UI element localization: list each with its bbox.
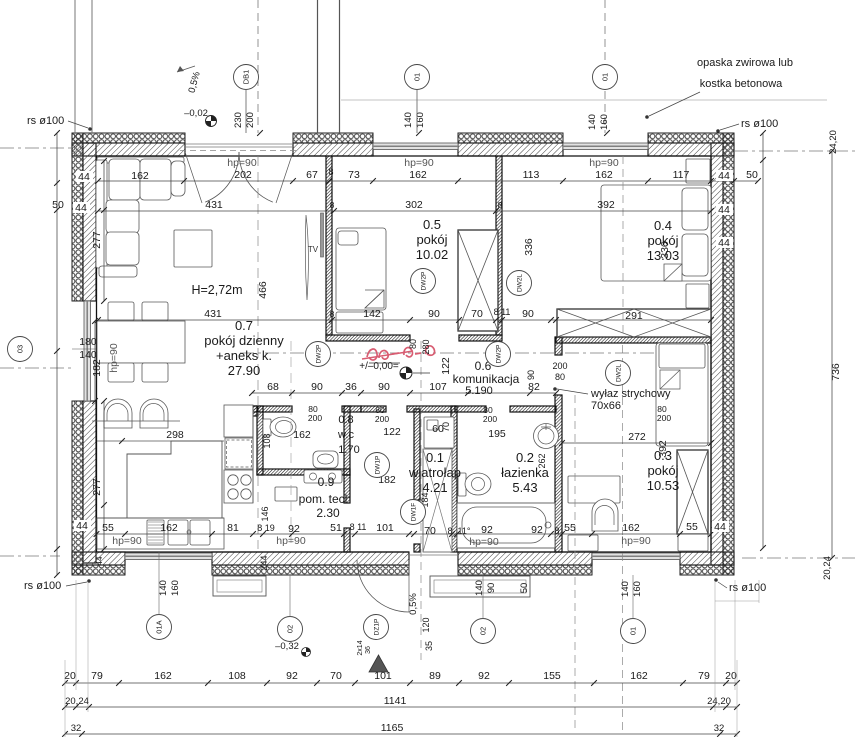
svg-text:244: 244 — [259, 555, 269, 570]
svg-text:44: 44 — [76, 520, 88, 532]
svg-text:70: 70 — [330, 670, 342, 682]
svg-text:36: 36 — [365, 646, 372, 654]
svg-text:291: 291 — [625, 310, 643, 322]
svg-text:195: 195 — [488, 428, 506, 440]
svg-text:50: 50 — [519, 583, 530, 594]
svg-text:122: 122 — [440, 357, 452, 375]
svg-text:182: 182 — [91, 359, 103, 377]
svg-text:44: 44 — [718, 204, 730, 216]
svg-text:298: 298 — [166, 429, 184, 441]
svg-text:160: 160 — [632, 581, 643, 597]
svg-text:komunikacja: komunikacja — [453, 372, 520, 386]
svg-text:180: 180 — [79, 336, 97, 348]
svg-text:01: 01 — [601, 73, 610, 81]
svg-text:10.02: 10.02 — [416, 247, 449, 262]
svg-text:H=2,72m: H=2,72m — [191, 283, 242, 297]
svg-text:90: 90 — [526, 370, 536, 380]
svg-text:8: 8 — [498, 200, 503, 210]
svg-text:rs ø100: rs ø100 — [741, 118, 778, 130]
svg-text:1165: 1165 — [381, 722, 404, 734]
svg-text:162: 162 — [131, 170, 149, 182]
svg-text:44: 44 — [75, 202, 87, 214]
svg-text:101: 101 — [374, 670, 392, 682]
svg-text:44: 44 — [714, 521, 726, 533]
svg-text:44: 44 — [95, 556, 104, 565]
svg-text:0.9: 0.9 — [318, 475, 335, 489]
svg-text:02: 02 — [479, 627, 488, 635]
svg-text:101: 101 — [376, 522, 394, 534]
svg-text:280: 280 — [421, 339, 431, 354]
svg-text:68: 68 — [267, 381, 279, 393]
svg-text:92: 92 — [286, 670, 298, 682]
svg-text:79: 79 — [91, 670, 103, 682]
svg-text:8 11: 8 11 — [350, 522, 367, 532]
svg-text:8 11: 8 11 — [494, 307, 511, 317]
svg-text:DZ1P: DZ1P — [374, 619, 381, 636]
svg-text:pokój: pokój — [647, 233, 678, 248]
svg-text:431: 431 — [205, 199, 223, 211]
svg-text:55: 55 — [686, 521, 698, 533]
svg-text:01: 01 — [413, 73, 422, 81]
svg-text:hp=90: hp=90 — [621, 535, 651, 547]
svg-text:160: 160 — [599, 114, 610, 130]
svg-text:160: 160 — [170, 580, 181, 596]
svg-text:DW2L: DW2L — [517, 274, 524, 292]
svg-text:DW2P: DW2P — [496, 345, 503, 364]
svg-text:202: 202 — [234, 169, 252, 181]
svg-text:70: 70 — [424, 525, 436, 537]
svg-text:hp=90: hp=90 — [108, 343, 120, 373]
svg-text:rs ø100: rs ø100 — [729, 582, 766, 594]
svg-text:50: 50 — [52, 199, 64, 211]
svg-text:hp=90: hp=90 — [589, 157, 619, 169]
svg-text:36: 36 — [345, 381, 357, 393]
svg-text:277: 277 — [91, 231, 103, 249]
svg-text:pokój dzienny: pokój dzienny — [204, 333, 284, 348]
svg-text:90: 90 — [311, 381, 323, 393]
svg-text:łazienka: łazienka — [501, 465, 549, 480]
svg-text:162: 162 — [409, 169, 427, 181]
svg-text:13.03: 13.03 — [647, 248, 680, 263]
svg-text:80: 80 — [408, 339, 418, 349]
svg-text:rs ø100: rs ø100 — [27, 115, 64, 127]
svg-text:hp=90: hp=90 — [112, 535, 142, 547]
svg-text:opaska zwirowa lub: opaska zwirowa lub — [697, 57, 793, 69]
svg-text:8: 8 — [330, 309, 335, 319]
svg-text:122: 122 — [383, 426, 401, 438]
svg-text:200: 200 — [308, 413, 322, 423]
svg-text:113: 113 — [523, 169, 540, 181]
svg-text:44: 44 — [78, 171, 90, 183]
svg-text:277: 277 — [91, 478, 103, 496]
svg-text:1141: 1141 — [384, 695, 407, 707]
svg-text:11°: 11° — [458, 526, 471, 536]
svg-text:0.2: 0.2 — [516, 450, 534, 465]
svg-text:431: 431 — [204, 308, 222, 320]
svg-text:03: 03 — [16, 345, 25, 353]
svg-text:90: 90 — [522, 308, 534, 320]
svg-text:20,24: 20,24 — [65, 696, 89, 707]
svg-text:pom. tech: pom. tech — [299, 492, 352, 506]
svg-text:200: 200 — [552, 361, 567, 371]
svg-text:92: 92 — [288, 523, 300, 535]
svg-text:90: 90 — [428, 308, 440, 320]
svg-text:20: 20 — [64, 670, 76, 682]
svg-text:55: 55 — [564, 522, 576, 534]
svg-text:4.21: 4.21 — [422, 480, 447, 495]
svg-text:20,24: 20,24 — [822, 556, 833, 580]
svg-text:146: 146 — [260, 506, 270, 521]
svg-text:70x66: 70x66 — [591, 400, 621, 412]
svg-text:200: 200 — [375, 414, 389, 424]
svg-text:hp=90: hp=90 — [404, 157, 434, 169]
svg-text:140: 140 — [403, 112, 414, 128]
svg-text:117: 117 — [673, 169, 690, 181]
svg-text:200: 200 — [483, 414, 497, 424]
svg-text:90: 90 — [486, 583, 497, 594]
svg-text:140: 140 — [474, 580, 485, 596]
svg-text:hp=90: hp=90 — [276, 535, 306, 547]
svg-text:80: 80 — [555, 372, 565, 382]
svg-text:2x14: 2x14 — [357, 640, 364, 655]
svg-text:DB1: DB1 — [242, 70, 251, 85]
svg-text:108: 108 — [262, 433, 272, 448]
svg-text:70: 70 — [471, 308, 483, 320]
svg-text:32: 32 — [714, 723, 725, 734]
svg-text:32: 32 — [71, 723, 82, 734]
svg-text:736: 736 — [830, 363, 842, 381]
svg-text:27.90: 27.90 — [228, 363, 261, 378]
svg-text:pokój: pokój — [416, 232, 447, 247]
svg-text:392: 392 — [597, 199, 615, 211]
svg-text:hp=90: hp=90 — [227, 157, 257, 169]
svg-text:2.30: 2.30 — [316, 506, 340, 520]
svg-text:140: 140 — [587, 114, 598, 130]
svg-text:35: 35 — [424, 641, 434, 651]
svg-text:162: 162 — [154, 670, 172, 682]
svg-text:70: 70 — [441, 422, 451, 432]
svg-text:8: 8 — [554, 526, 559, 536]
svg-text:8 19: 8 19 — [257, 523, 275, 533]
svg-text:8: 8 — [447, 526, 452, 536]
svg-text:–0,02: –0,02 — [184, 108, 208, 119]
svg-text:92: 92 — [481, 524, 493, 536]
svg-text:TV: TV — [308, 245, 319, 254]
svg-text:302: 302 — [405, 199, 423, 211]
svg-text:5.43: 5.43 — [512, 480, 537, 495]
svg-text:0.8: 0.8 — [338, 414, 353, 426]
svg-text:24,20: 24,20 — [828, 130, 839, 154]
svg-text:155: 155 — [543, 670, 561, 682]
svg-text:0.1: 0.1 — [426, 450, 444, 465]
svg-text:–0,32: –0,32 — [275, 641, 299, 652]
svg-text:162: 162 — [622, 522, 640, 534]
svg-text:DW1P: DW1P — [375, 456, 382, 475]
svg-text:51: 51 — [330, 522, 342, 534]
svg-text:162: 162 — [293, 429, 311, 441]
svg-text:0.3: 0.3 — [654, 448, 672, 463]
svg-text:DW2P: DW2P — [421, 272, 428, 291]
svg-text:0.4: 0.4 — [654, 218, 672, 233]
svg-text:wyłaz strychowy: wyłaz strychowy — [590, 388, 671, 400]
svg-text:82: 82 — [528, 381, 540, 393]
svg-text:73: 73 — [348, 169, 360, 181]
svg-text:01: 01 — [629, 627, 638, 635]
svg-text:24,20: 24,20 — [707, 696, 731, 707]
svg-text:140: 140 — [620, 581, 631, 597]
svg-text:rs ø100: rs ø100 — [24, 580, 61, 592]
svg-text:hp=90: hp=90 — [469, 536, 499, 548]
svg-text:142: 142 — [363, 308, 381, 320]
svg-text:90: 90 — [378, 381, 390, 393]
svg-text:336: 336 — [523, 238, 535, 256]
svg-text:140: 140 — [79, 349, 97, 361]
svg-text:81: 81 — [227, 522, 239, 534]
svg-text:67: 67 — [306, 169, 318, 181]
svg-text:140: 140 — [158, 580, 169, 596]
svg-text:kostka betonowa: kostka betonowa — [700, 78, 783, 90]
svg-text:1.70: 1.70 — [338, 444, 359, 456]
svg-text:230: 230 — [233, 112, 244, 128]
svg-text:02: 02 — [286, 625, 295, 633]
svg-text:466: 466 — [257, 281, 269, 299]
svg-text:0,5%: 0,5% — [408, 593, 419, 615]
svg-text:w.c: w.c — [337, 429, 354, 441]
svg-text:5.190: 5.190 — [465, 385, 493, 397]
svg-text:8: 8 — [328, 167, 333, 177]
svg-text:89: 89 — [429, 670, 441, 682]
svg-text:162: 162 — [160, 522, 178, 534]
svg-text:DW1F: DW1F — [411, 503, 418, 521]
svg-text:108: 108 — [228, 670, 246, 682]
svg-text:200: 200 — [657, 413, 671, 423]
svg-text:92: 92 — [531, 524, 543, 536]
svg-text:200: 200 — [245, 112, 256, 128]
svg-text:120: 120 — [421, 617, 431, 632]
svg-text:DW2L: DW2L — [616, 364, 623, 382]
svg-text:50: 50 — [746, 169, 758, 181]
svg-text:01A: 01A — [155, 620, 164, 633]
svg-text:wiatrołap: wiatrołap — [408, 465, 461, 480]
svg-text:272: 272 — [628, 431, 646, 443]
svg-text:DW2P: DW2P — [316, 345, 323, 364]
svg-text:44: 44 — [718, 237, 730, 249]
svg-text:pokój: pokój — [647, 463, 678, 478]
svg-text:107: 107 — [429, 381, 447, 393]
svg-text:0.5: 0.5 — [423, 217, 441, 232]
svg-text:162: 162 — [630, 670, 648, 682]
svg-text:0.7: 0.7 — [235, 318, 253, 333]
svg-text:79: 79 — [698, 670, 710, 682]
svg-text:10.53: 10.53 — [647, 478, 680, 493]
svg-text:160: 160 — [415, 112, 426, 128]
svg-text:162: 162 — [595, 169, 613, 181]
svg-text:44: 44 — [718, 170, 730, 182]
svg-text:8: 8 — [330, 200, 335, 210]
svg-text:92: 92 — [478, 670, 490, 682]
svg-text:+aneks k.: +aneks k. — [216, 348, 272, 363]
